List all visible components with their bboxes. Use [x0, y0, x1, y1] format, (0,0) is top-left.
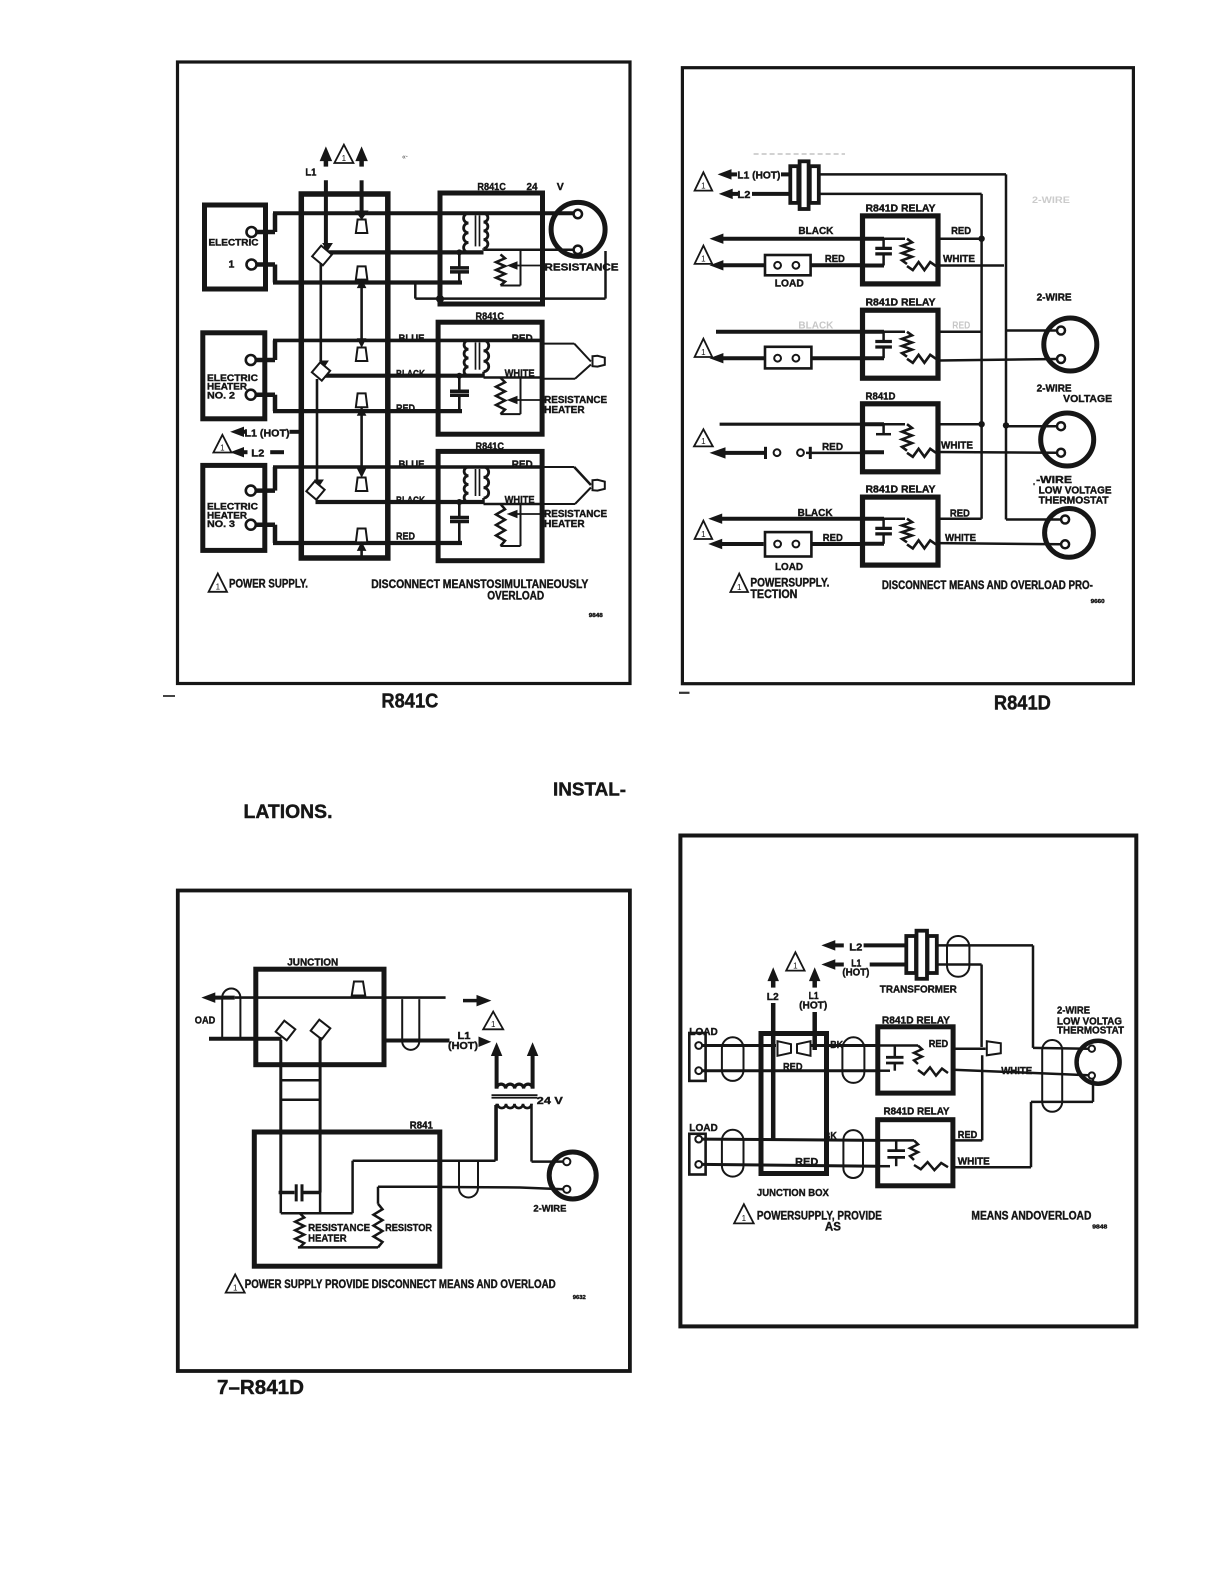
svg-text:WHITE: WHITE — [943, 253, 975, 265]
svg-text:RED: RED — [823, 532, 843, 544]
svg-text:1: 1 — [229, 259, 235, 271]
svg-text:WHITE: WHITE — [505, 368, 535, 380]
svg-text:RESISTOR: RESISTOR — [385, 1222, 432, 1234]
svg-text:RED: RED — [822, 441, 843, 453]
svg-text:BLACK: BLACK — [798, 225, 833, 237]
svg-text:24 V: 24 V — [537, 1095, 563, 1107]
svg-text:RED: RED — [396, 531, 415, 543]
svg-text:LATIONS.: LATIONS. — [244, 802, 333, 823]
svg-text:1: 1 — [233, 1283, 238, 1292]
svg-text:OAD: OAD — [195, 1014, 216, 1026]
svg-text:RED: RED — [396, 403, 415, 415]
svg-text:BLACK: BLACK — [798, 507, 833, 519]
svg-text:NO. 3: NO. 3 — [207, 519, 235, 530]
svg-text:POWER SUPPLY.: POWER SUPPLY. — [229, 579, 308, 591]
svg-text:R841D: R841D — [866, 391, 896, 402]
svg-text:1: 1 — [220, 443, 225, 452]
svg-text:WHITE: WHITE — [505, 494, 535, 506]
svg-text:ELECTRIC: ELECTRIC — [209, 237, 259, 248]
svg-text:WHITE: WHITE — [945, 532, 976, 544]
svg-text:1: 1 — [793, 961, 798, 970]
svg-text:1: 1 — [701, 437, 706, 446]
svg-text:(HOT): (HOT) — [448, 1041, 478, 1052]
svg-text:9848: 9848 — [1092, 1225, 1107, 1231]
svg-text:R841C: R841C — [476, 311, 505, 323]
svg-text:2-WIRE: 2-WIRE — [533, 1204, 566, 1215]
svg-text:RED: RED — [950, 508, 970, 520]
svg-text:RED: RED — [825, 253, 845, 265]
svg-text:LOAD: LOAD — [775, 277, 804, 289]
svg-text:HEATER: HEATER — [308, 1232, 347, 1244]
svg-text:R841D RELAY: R841D RELAY — [866, 203, 936, 214]
svg-text:(HOT): (HOT) — [799, 1001, 827, 1012]
svg-text:1: 1 — [742, 1214, 747, 1223]
svg-text:1: 1 — [701, 530, 706, 539]
svg-text:BLUE: BLUE — [399, 333, 425, 345]
svg-text:1: 1 — [342, 154, 347, 163]
svg-text:INSTAL-: INSTAL- — [553, 780, 626, 800]
svg-text:L2: L2 — [737, 189, 750, 201]
svg-text:AS: AS — [825, 1222, 841, 1234]
svg-text:POWERSUPPLY, PROVIDE: POWERSUPPLY, PROVIDE — [757, 1211, 882, 1223]
svg-text:POWERSUPPLY.: POWERSUPPLY. — [750, 578, 829, 590]
svg-text:NO. 2: NO. 2 — [207, 391, 235, 402]
svg-text:R841D RELAY: R841D RELAY — [884, 1105, 950, 1117]
svg-text:THERMOSTAT: THERMOSTAT — [1039, 495, 1110, 507]
svg-text:DISCONNECT MEANS AND OVERLOAD: DISCONNECT MEANS AND OVERLOAD PRO- — [882, 580, 1093, 592]
svg-text:JUNCTION BOX: JUNCTION BOX — [757, 1187, 829, 1199]
svg-text:1: 1 — [216, 583, 221, 592]
svg-text:9660: 9660 — [1091, 599, 1105, 605]
svg-text:L2: L2 — [767, 991, 779, 1003]
svg-text:LOAD: LOAD — [775, 561, 803, 573]
svg-text:R841D RELAY: R841D RELAY — [866, 485, 936, 496]
svg-text:«·: «· — [402, 154, 408, 161]
svg-text:WHITE: WHITE — [941, 440, 973, 452]
svg-text:BK: BK — [824, 1131, 838, 1142]
svg-text:1: 1 — [491, 1020, 496, 1029]
svg-text:L1 (HOT): L1 (HOT) — [245, 428, 290, 440]
svg-text:RED: RED — [952, 320, 970, 332]
svg-text:L1 (HOT): L1 (HOT) — [737, 169, 780, 181]
svg-text:RED: RED — [795, 1156, 818, 1168]
svg-text:R841D RELAY: R841D RELAY — [866, 298, 936, 309]
svg-text:(HOT): (HOT) — [842, 968, 869, 979]
svg-text:9848: 9848 — [589, 613, 603, 619]
svg-text:RED: RED — [783, 1061, 803, 1073]
svg-text:HEATER: HEATER — [544, 519, 585, 530]
svg-text:BLACK: BLACK — [798, 320, 833, 332]
svg-text:R841C: R841C — [476, 441, 505, 453]
svg-text:RESISTANCE: RESISTANCE — [545, 262, 619, 274]
svg-text:1: 1 — [701, 255, 706, 264]
svg-text:9632: 9632 — [573, 1295, 586, 1301]
svg-text:TECTION: TECTION — [750, 589, 797, 601]
svg-text:L2: L2 — [849, 941, 862, 953]
svg-text:1: 1 — [701, 348, 706, 357]
svg-text:2-WIRE: 2-WIRE — [1032, 195, 1070, 205]
svg-text:LOAD: LOAD — [689, 1122, 718, 1134]
svg-text:1: 1 — [701, 181, 706, 190]
svg-text:RED: RED — [929, 1038, 949, 1050]
svg-text:WHITE: WHITE — [1001, 1065, 1032, 1077]
svg-text:R841D: R841D — [994, 693, 1051, 715]
svg-text:RED: RED — [958, 1129, 978, 1141]
svg-text:BLUE: BLUE — [399, 459, 425, 471]
svg-text:WHITE: WHITE — [958, 1155, 990, 1167]
svg-text:TRANSFORMER: TRANSFORMER — [880, 984, 957, 996]
svg-text:24: 24 — [527, 181, 538, 193]
svg-text:2-WIRE: 2-WIRE — [1037, 292, 1072, 304]
svg-text:BLACK: BLACK — [396, 495, 425, 507]
svg-text:RED: RED — [512, 459, 533, 471]
svg-text:OVERLOAD: OVERLOAD — [487, 591, 544, 603]
svg-text:BK: BK — [830, 1040, 844, 1051]
svg-text:L2: L2 — [251, 448, 264, 460]
svg-text:7–R841D: 7–R841D — [217, 1377, 304, 1399]
svg-text:DISCONNECT MEANSTOSIMULTANEOUS: DISCONNECT MEANSTOSIMULTANEOUSLY — [371, 579, 588, 591]
svg-text:RED: RED — [512, 332, 533, 344]
svg-text:R841C: R841C — [477, 181, 506, 193]
svg-text:POWER SUPPLY PROVIDE DISCONNEC: POWER SUPPLY PROVIDE DISCONNECT MEANS AN… — [245, 1279, 556, 1291]
svg-text:RED: RED — [951, 225, 971, 237]
svg-text:VOLTAGE: VOLTAGE — [1063, 393, 1112, 405]
svg-text:R841C: R841C — [381, 691, 438, 713]
svg-text:BLACK: BLACK — [396, 368, 425, 380]
svg-text:L1: L1 — [305, 166, 316, 178]
svg-text:HEATER: HEATER — [544, 405, 585, 416]
svg-text:1: 1 — [737, 583, 742, 592]
svg-text:THERMOSTAT: THERMOSTAT — [1057, 1025, 1125, 1037]
svg-text:MEANS ANDOVERLOAD: MEANS ANDOVERLOAD — [971, 1211, 1091, 1223]
svg-text:V: V — [557, 181, 564, 193]
